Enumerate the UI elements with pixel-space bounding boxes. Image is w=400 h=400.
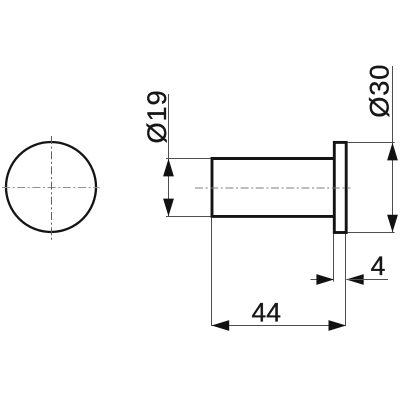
front view circle (flange Ø30): [6, 142, 96, 232]
dimension 4: left tail line: [311, 279, 334, 281]
dimension Ø30: dimension line: [392, 66, 394, 232]
vertical centerline of circle: [51, 136, 53, 242]
side view centerline: [195, 187, 351, 189]
dimension Ø19: arrow up: [163, 159, 174, 177]
dimension Ø30: extension lines: [348, 143, 395, 233]
svg-text:4: 4: [371, 251, 386, 281]
dimension 4: right tail line: [346, 279, 388, 281]
svg-text:44: 44: [252, 298, 281, 328]
dimension Ø19: dimension line: [168, 94, 170, 216]
dimension 44: right arrow (points right): [329, 320, 347, 331]
horizontal centerline of circle: [2, 187, 100, 189]
side view: flange (4 thick, Ø30): [334, 142, 346, 232]
dimension 44: left arrow (points left): [212, 320, 230, 331]
svg-text:Ø19: Ø19: [141, 89, 172, 143]
dimension 4: extension line left (flange left): [333, 234, 335, 282]
dimension Ø30: arrow down: [387, 215, 398, 233]
dimension 44: dimension line: [212, 325, 346, 327]
dimension Ø19: extension lines: [166, 159, 211, 217]
dimension 4: extension line right (flange right): [345, 234, 347, 326]
svg-text:Ø30: Ø30: [364, 64, 395, 118]
side view: cylinder body Ø19: [212, 159, 334, 217]
dimension Ø19: arrow down: [163, 199, 174, 217]
dimension 4: right arrow (points left): [346, 274, 364, 285]
dimension Ø30: arrow up: [387, 143, 398, 161]
dimension 4: left arrow (points right): [316, 274, 334, 285]
dimension 44: extension line left (cylinder left): [211, 218, 213, 326]
